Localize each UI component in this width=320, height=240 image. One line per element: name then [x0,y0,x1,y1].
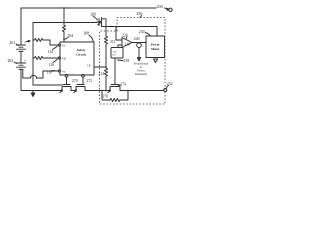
svg-text:250: 250 [137,12,143,16]
resistor R1a (to safety IC pin) [33,38,44,41]
svg-text:+: + [24,59,26,63]
svg-text:218: 218 [124,59,130,63]
svg-text:230: 230 [139,30,145,34]
resistor R214 (divider lower) [104,68,107,80]
battery B2 (cells 203) [17,62,26,64]
svg-text:Vcc: Vcc [62,44,67,47]
pin name smudges [62,44,117,73]
transistor Q270 [62,87,71,91]
wire meter signal down arrow [137,43,142,48]
battery B1 (cells 201) [17,44,26,46]
wire left rail lower [20,69,22,90]
label leader 116 [53,59,57,62]
svg-text:118: 118 [47,71,53,75]
svg-text:270: 270 [72,79,78,83]
meter output open triangle [153,59,157,63]
wire opamp output [132,42,146,44]
label leader 230 [145,33,150,37]
wire opamp lower input [118,44,122,46]
label leader 204 [65,38,68,40]
resistor R1b (to safety IC pin) [33,56,44,59]
node terminal T2 (bottom pack terminal) [164,88,167,91]
op Power Meter box [146,36,165,58]
svg-text:276: 276 [103,95,109,99]
wire arrow to terminal [165,8,169,9]
svg-text:CB: CB [87,64,91,67]
wire divider mid [105,46,107,68]
wire top rail [21,7,156,9]
label leader 118 [52,70,57,73]
label leader 274 [118,85,121,86]
svg-text:252: 252 [167,82,173,86]
resistor R276 bypass loop [102,91,110,101]
resistor R64 (divider to safety IC) [62,23,65,34]
label leader 206 [93,16,98,20]
svg-text:114: 114 [48,50,54,54]
wire left rail mid [20,51,22,63]
svg-text:208: 208 [84,32,90,36]
wire inner top [33,22,97,24]
svg-text:240: 240 [134,37,140,41]
label leader 201 [16,44,19,46]
transistor Q206 (series pass FET) [97,21,99,23]
svg-text:Power: Power [151,43,161,47]
pin circles left [58,44,60,46]
svg-text:Ref: Ref [113,54,117,57]
pin right with wire [94,66,106,68]
svg-text:Meter: Meter [151,47,160,51]
label leader R1a [26,40,30,43]
wire inner rail [32,23,34,86]
svg-text:272: 272 [87,79,93,83]
svg-text:+: + [24,41,26,45]
label leader 203 [14,62,17,64]
wire divider bottom [105,80,107,91]
svg-text:Dissipated: Dissipated [135,72,148,76]
svg-text:201: 201 [10,41,16,45]
junction dots [63,7,65,9]
op IC reference box 216 [111,48,123,59]
svg-text:Vss: Vss [62,70,66,73]
label leader 252 [166,85,168,88]
svg-text:216: 216 [125,42,131,46]
box texts [76,43,160,57]
node junction 64-39 [63,38,65,40]
svg-text:206: 206 [91,13,97,17]
node terminal T1 (positive pack terminal) [169,8,172,11]
svg-text:116: 116 [49,63,55,67]
label leader 114 [53,46,58,49]
dashed module outline 250 [100,18,166,105]
wire link top rails [63,8,65,23]
op-amp U220 [122,38,132,48]
label leader 218 [118,59,123,62]
transistor Q274 [110,87,120,91]
svg-text:214: 214 [99,72,105,76]
svg-text:211: 211 [110,40,116,44]
labels [8,4,173,99]
wire sense bottom [33,84,62,86]
ground arrow at bottom rail [32,91,34,94]
svg-text:204: 204 [68,34,74,38]
wire bottom rail [21,90,62,92]
svg-text:Safety: Safety [77,48,86,52]
transistor Q272 [76,87,85,91]
wire left rail upper [20,8,22,45]
pin bottom leads [65,74,68,77]
wire mid rail to power meter [106,27,157,37]
svg-text:203: 203 [8,59,14,63]
wire refbox gate lead [114,58,116,85]
label leader 208 [89,35,93,41]
label leader 220 [126,37,127,39]
wire opamp input tap [116,27,122,41]
svg-text:274: 274 [121,83,127,87]
svg-text:Circuit: Circuit [76,53,87,57]
svg-text:220: 220 [122,34,128,38]
op IC safety circuit box [60,42,94,75]
label leader 250 [140,16,142,18]
resistor R210 (divider upper) [104,27,107,47]
wire battery tap with hop [23,70,30,78]
svg-text:Vdd: Vdd [62,57,67,60]
svg-text:200: 200 [157,4,163,9]
